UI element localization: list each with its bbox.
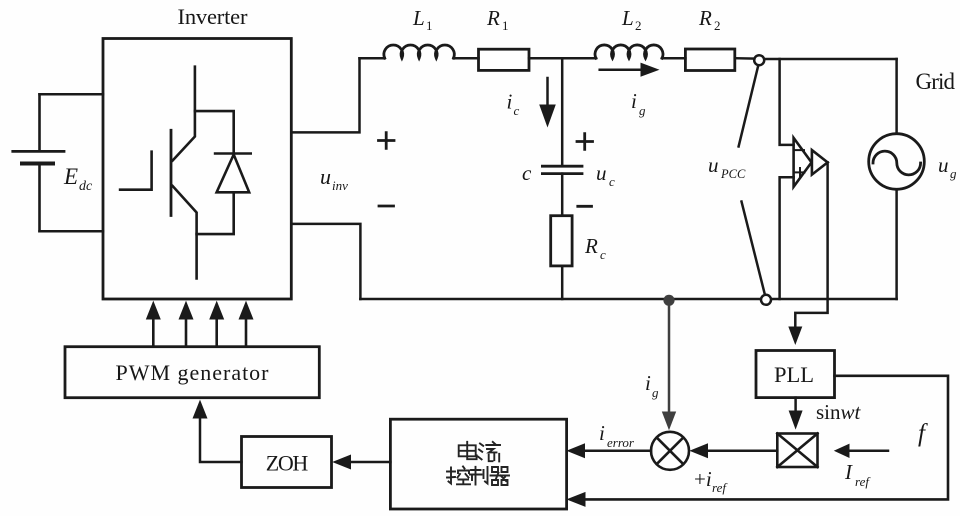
svg-text:1: 1	[502, 18, 509, 33]
wire PLL to mixer (sinwt)	[789, 398, 803, 430]
switch upper blade	[739, 67, 758, 147]
PLL block	[756, 351, 835, 398]
label R2	[698, 6, 721, 33]
svg-text:g: g	[652, 385, 659, 400]
transistor Q1 (IGBT)	[120, 67, 197, 279]
label u_g	[938, 153, 957, 181]
wire battery bottom to inverter	[40, 230, 104, 233]
voltage sensor (transducer)	[794, 138, 828, 187]
svg-text:u: u	[708, 153, 719, 177]
wire top rail switch to grid branch	[763, 58, 897, 61]
svg-text:u: u	[320, 164, 331, 189]
label u_c	[596, 161, 615, 189]
svg-text:R: R	[584, 234, 598, 258]
svg-text:Inverter: Inverter	[178, 4, 249, 29]
wire capacitor to Rc	[561, 174, 564, 216]
label sinwt	[816, 400, 862, 424]
label I_ref	[844, 460, 871, 489]
label E_dc	[63, 164, 93, 194]
node junction sensor top tap	[780, 59, 794, 145]
wire grid source to bottom rail	[895, 189, 898, 299]
resistor R1	[479, 49, 530, 70]
inductor L1	[384, 45, 454, 58]
label c	[522, 161, 532, 185]
label i_g (measurement)	[645, 371, 659, 400]
minus sign u_c polarity	[578, 205, 592, 208]
resistor R2	[685, 49, 734, 71]
svg-text:c: c	[522, 161, 532, 185]
svg-text:E: E	[63, 164, 78, 189]
label Inverter	[178, 4, 249, 29]
gate drive arrows PWM to inverter	[146, 301, 254, 347]
svg-text:L: L	[412, 6, 425, 30]
svg-text:R: R	[698, 6, 712, 30]
label L1	[412, 6, 433, 33]
svg-text:c: c	[514, 103, 520, 118]
svg-text:ZOH: ZOH	[266, 450, 309, 475]
svg-text:i: i	[631, 89, 637, 113]
arrow I_ref input	[834, 444, 888, 458]
wire inverter lower output stub	[291, 224, 360, 299]
svg-text:2: 2	[635, 18, 642, 33]
multiplier node (circle with X)	[651, 432, 689, 470]
minus sign u_inv polarity	[379, 205, 394, 208]
label R1	[486, 6, 509, 33]
label i_error	[599, 421, 635, 450]
label PLL	[774, 362, 814, 387]
label u_inv	[320, 164, 348, 193]
wire Rc to bottom rail	[561, 266, 564, 299]
svg-text:inv: inv	[332, 178, 348, 193]
svg-text:i: i	[645, 371, 651, 395]
switch lower blade	[742, 202, 765, 294]
svg-text:I: I	[844, 460, 853, 484]
svg-text:sinwt: sinwt	[816, 400, 862, 424]
svg-text:2: 2	[714, 18, 721, 33]
resistor Rc	[551, 216, 572, 266]
AC source u_g (grid)	[869, 134, 925, 190]
svg-text:u: u	[938, 153, 949, 177]
arrow i_g current direction	[600, 63, 660, 77]
label Grid	[916, 69, 956, 94]
label i_g (top)	[631, 89, 646, 118]
svg-text:Grid: Grid	[916, 69, 956, 94]
switch top contact (open circle)	[754, 55, 764, 65]
label R_c	[584, 234, 606, 262]
wire top node to capacitor branch	[561, 58, 564, 166]
svg-text:ref: ref	[855, 474, 871, 489]
wire ZOH to PWM generator	[193, 400, 242, 462]
label PWM generator	[116, 360, 270, 385]
wire mixer to multiplier	[689, 443, 777, 458]
current controller block	[390, 419, 566, 509]
wire multiplier to controller (i_error)	[566, 443, 651, 458]
wire L1 to R1	[454, 57, 479, 60]
svg-text:i: i	[507, 90, 513, 114]
wire sensor output to PLL	[788, 162, 827, 345]
svg-text:i: i	[599, 421, 605, 445]
svg-text:g: g	[639, 103, 646, 118]
svg-text:1: 1	[426, 18, 433, 33]
svg-text:+i: +i	[694, 467, 712, 491]
switch bottom contact (open circle)	[761, 295, 771, 305]
plus sign u_inv polarity	[379, 133, 395, 149]
wire battery top to inverter	[40, 93, 104, 96]
wire controller to ZOH	[332, 455, 390, 470]
svg-text:u: u	[596, 161, 607, 185]
svg-text:error: error	[607, 435, 635, 450]
wire L2 to R2	[662, 57, 685, 60]
label ZOH	[266, 450, 309, 475]
diode D1 (freewheeling)	[195, 111, 251, 234]
wire sensor bottom tap	[780, 177, 794, 299]
wire R1 to node A	[529, 57, 596, 60]
capacitor C	[542, 166, 582, 173]
label +i_ref	[694, 467, 728, 495]
arrow i_c current direction	[539, 78, 556, 128]
wire i_g measurement from node B to multiplier	[662, 300, 676, 430]
label L2	[621, 6, 642, 33]
label i_c	[507, 90, 520, 119]
battery E_dc	[13, 94, 64, 231]
svg-text:PCC: PCC	[720, 167, 746, 181]
node B (filled dot on bottom rail)	[663, 295, 674, 306]
label u_PCC	[708, 153, 746, 181]
wire inverter upper output stub	[291, 58, 359, 132]
wire PLL feedback f to controller	[566, 376, 948, 507]
ZOH block	[242, 437, 332, 488]
bottom rail	[360, 298, 896, 301]
plus sign u_c polarity	[577, 134, 593, 150]
inverter block U1	[103, 39, 291, 300]
label f	[918, 420, 928, 447]
mixer box (X in square)	[777, 434, 817, 468]
inductor L2	[595, 45, 663, 58]
svg-text:PLL: PLL	[774, 362, 814, 387]
wire R2 to switch contact	[735, 57, 755, 60]
svg-text:R: R	[486, 6, 500, 30]
svg-text:g: g	[950, 166, 957, 181]
wire top rail to L1	[360, 57, 385, 60]
svg-text:ref: ref	[712, 480, 728, 495]
PWM generator block	[65, 347, 319, 398]
svg-text:c: c	[600, 247, 606, 262]
label current controller (Chinese 电流 / 控制器)	[447, 442, 509, 485]
svg-text:dc: dc	[79, 179, 93, 194]
svg-text:c: c	[609, 174, 615, 189]
svg-text:PWM generator: PWM generator	[116, 360, 270, 385]
svg-text:L: L	[621, 6, 634, 30]
wire grid branch down to source	[895, 59, 898, 134]
